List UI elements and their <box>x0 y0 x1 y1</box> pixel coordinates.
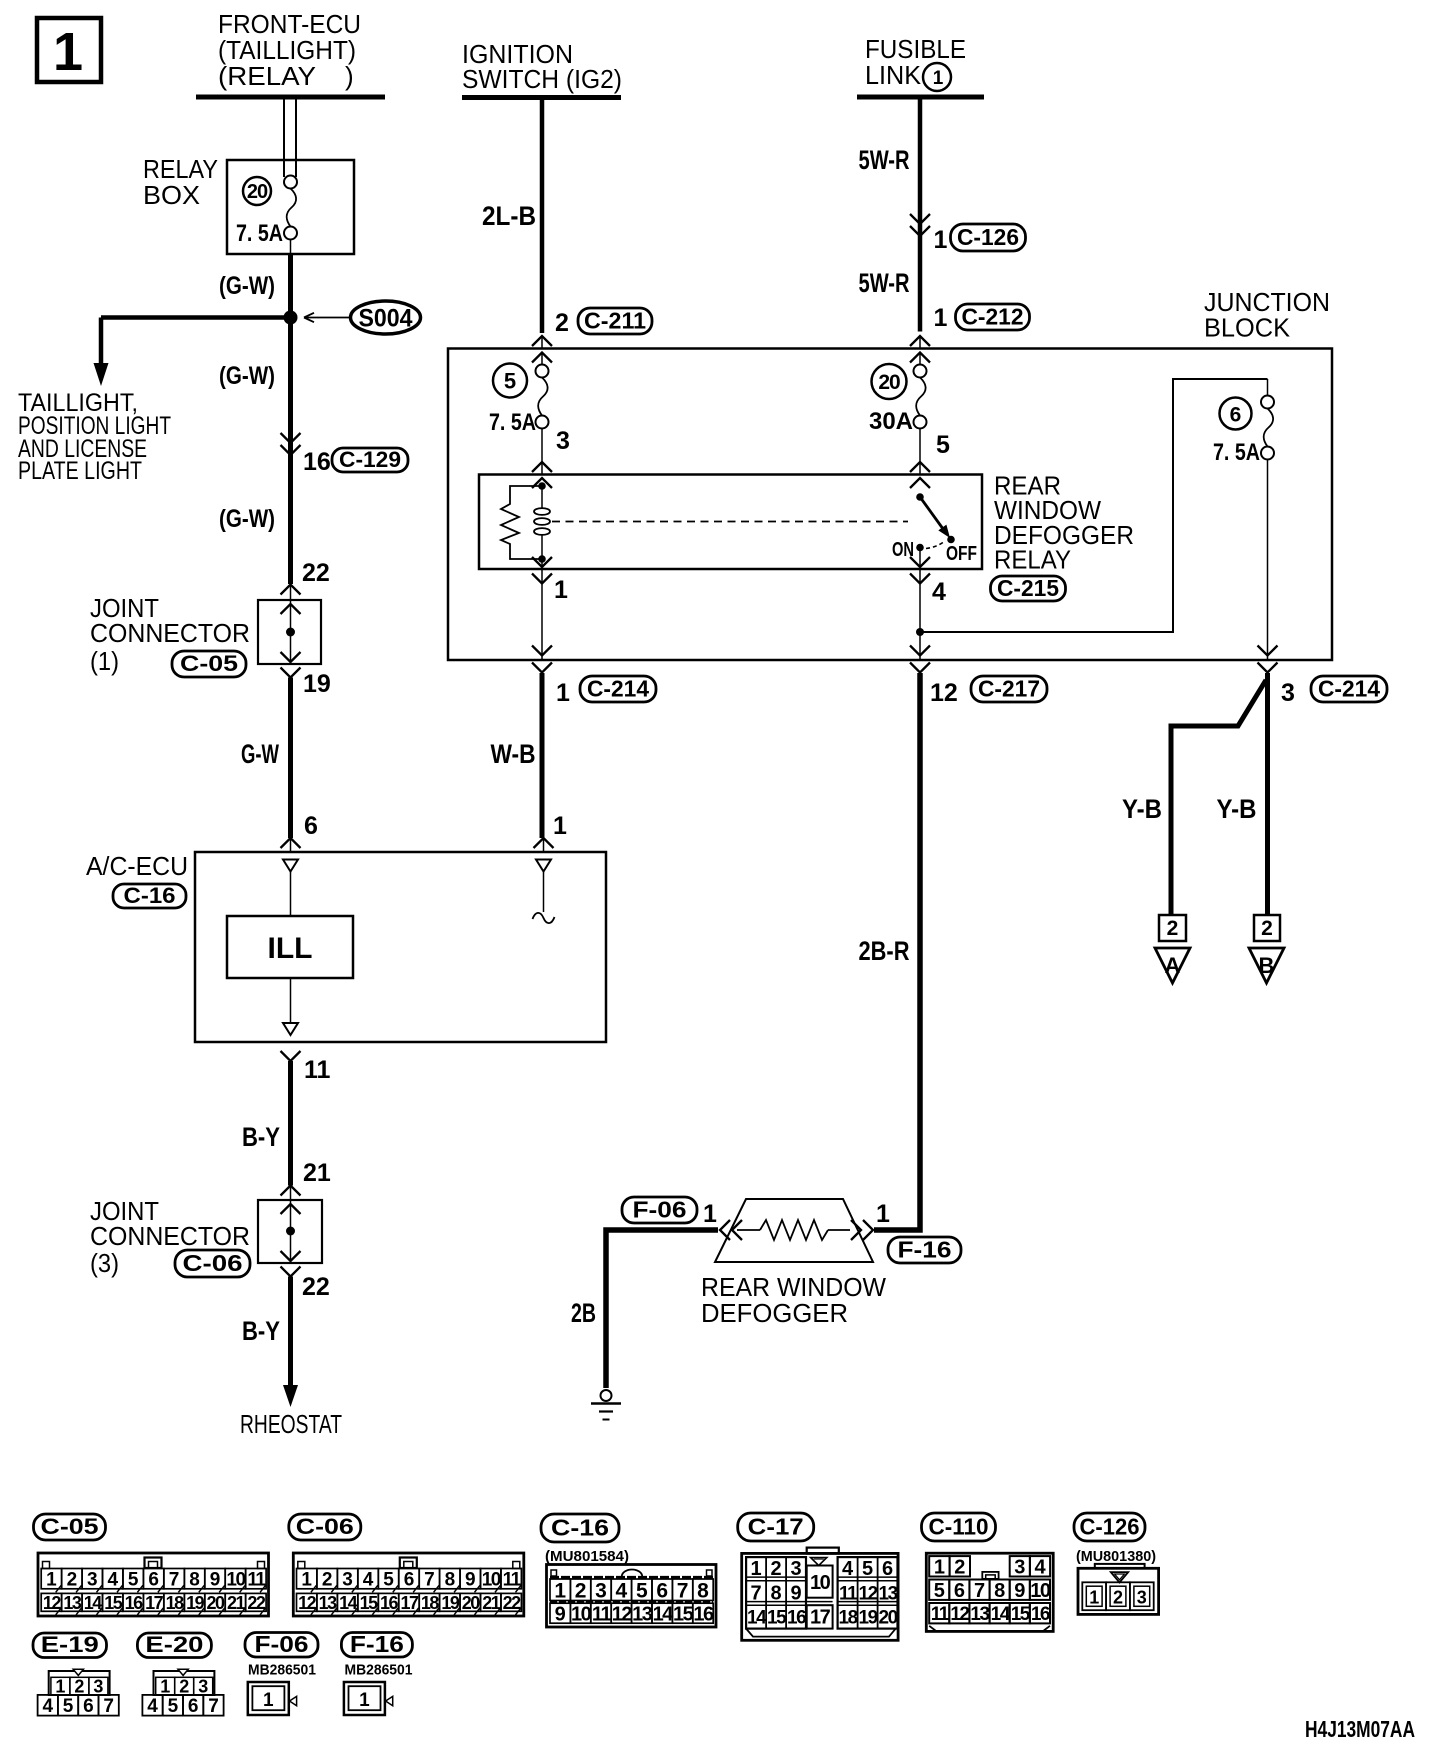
svg-text:C-214: C-214 <box>587 675 649 701</box>
svg-text:4: 4 <box>932 578 946 606</box>
terminal chevrons into junction block (C-211) <box>532 336 552 365</box>
connector label C-215 <box>991 575 1066 601</box>
connector label C-05 <box>172 651 246 677</box>
svg-text:20: 20 <box>878 371 900 394</box>
svg-text:16: 16 <box>693 1603 714 1625</box>
svg-text:1: 1 <box>1089 1588 1099 1608</box>
svg-text:Y-B: Y-B <box>1122 794 1162 824</box>
svg-text:19: 19 <box>303 670 331 698</box>
exit pin 1 C-214 <box>532 646 552 673</box>
wire B-Y A/C-ECU to joint connector C-06 <box>288 1061 293 1186</box>
svg-text:7: 7 <box>751 1583 762 1605</box>
svg-text:CONNECTOR: CONNECTOR <box>90 618 250 648</box>
svg-text:5: 5 <box>862 1558 873 1580</box>
svg-text:8: 8 <box>445 1570 456 1591</box>
relay switch contact <box>916 493 955 551</box>
svg-text:16: 16 <box>303 448 331 476</box>
svg-text:(G-W): (G-W) <box>219 505 275 533</box>
svg-text:22: 22 <box>503 1593 522 1613</box>
svg-text:13: 13 <box>879 1584 898 1605</box>
svg-text:1: 1 <box>876 1200 890 1228</box>
bus bar IGNITION SWITCH <box>462 95 621 100</box>
svg-text:13: 13 <box>970 1604 989 1625</box>
svg-text:2: 2 <box>575 1579 587 1602</box>
svg-text:1: 1 <box>301 1570 312 1591</box>
svg-text:22: 22 <box>302 559 330 587</box>
connector label C-212 <box>956 303 1030 330</box>
svg-text:RHEOSTAT: RHEOSTAT <box>240 1409 342 1439</box>
in-line connector marker 1 C-126 <box>910 214 930 236</box>
svg-text:6: 6 <box>188 1696 199 1717</box>
connector label C-126 <box>1074 1513 1145 1541</box>
svg-text:(1): (1) <box>90 646 119 676</box>
svg-text:DEFOGGER: DEFOGGER <box>701 1298 848 1328</box>
connector label C-16 <box>541 1514 619 1542</box>
svg-text:2B-R: 2B-R <box>859 936 910 966</box>
svg-text:2: 2 <box>1261 917 1273 940</box>
connector label C-05 <box>34 1514 106 1540</box>
svg-text:C-129: C-129 <box>339 447 401 472</box>
svg-text:8: 8 <box>189 1570 200 1591</box>
svg-text:6: 6 <box>954 1580 965 1602</box>
svg-text:11: 11 <box>931 1604 950 1625</box>
terminal chevron out of C-05, pin 19 <box>281 668 301 678</box>
svg-text:C-16: C-16 <box>551 1514 609 1540</box>
svg-text:OFF: OFF <box>946 543 977 565</box>
relay coil and resistor <box>501 482 550 563</box>
terminal chevron out of C-06 pin 22 <box>281 1267 301 1277</box>
fuse 6 (7.5A) <box>1267 379 1269 396</box>
rear window defogger relay box <box>479 475 982 570</box>
svg-text:H4J13M07AA: H4J13M07AA <box>1305 1716 1415 1742</box>
sheet number box 1 <box>37 18 101 82</box>
svg-text:14: 14 <box>339 1593 358 1613</box>
svg-text:6: 6 <box>404 1570 415 1591</box>
svg-text:15: 15 <box>673 1603 694 1625</box>
svg-text:4: 4 <box>363 1570 374 1591</box>
svg-text:11: 11 <box>304 1056 331 1084</box>
svg-text:C-05: C-05 <box>180 651 238 676</box>
wire fuse 6 to pin 3 exit <box>1267 460 1269 661</box>
wire 2L-B ignition switch to junction block <box>540 98 545 334</box>
connector C-16 pin chart <box>547 1565 717 1628</box>
connector C-05 pin chart <box>38 1553 269 1616</box>
svg-text:B-Y: B-Y <box>242 1122 280 1152</box>
fuse number 6 circled <box>1220 398 1252 430</box>
wire 2B defogger to ground <box>606 1230 718 1388</box>
A/C-ECU box <box>195 852 606 1042</box>
svg-text:2: 2 <box>954 1557 965 1579</box>
svg-text:F-16: F-16 <box>898 1236 952 1262</box>
wire branch to taillight <box>94 318 291 387</box>
svg-text:1: 1 <box>46 1570 57 1591</box>
svg-text:C-214: C-214 <box>1318 675 1380 701</box>
svg-text:3: 3 <box>1281 679 1295 707</box>
terminal chevrons relay pin 5 <box>910 462 930 488</box>
svg-text:ILL: ILL <box>268 932 313 965</box>
terminal chevrons into defogger right (F-16) <box>851 1220 873 1240</box>
label REAR WINDOW DEFOGGER <box>701 1272 886 1328</box>
svg-text:7: 7 <box>169 1570 180 1591</box>
svg-text:BOX: BOX <box>143 180 200 210</box>
connector C-126 pin chart <box>1078 1564 1159 1615</box>
svg-text:1: 1 <box>554 576 568 604</box>
splice S004 <box>304 301 421 334</box>
ILL block <box>227 916 353 978</box>
wire G-W joint connector to A/C-ECU <box>288 678 293 839</box>
wire 5W-R fusible link to junction block <box>918 97 923 332</box>
svg-text:16: 16 <box>1031 1604 1050 1625</box>
svg-text:17: 17 <box>810 1607 831 1629</box>
svg-text:7: 7 <box>677 1579 689 1602</box>
wire fuse to box edge <box>290 240 292 255</box>
svg-text:7: 7 <box>974 1580 985 1602</box>
svg-text:6: 6 <box>1230 404 1242 427</box>
bus bar FRONT-ECU <box>196 95 385 100</box>
svg-text:3: 3 <box>1137 1588 1147 1608</box>
svg-text:2B: 2B <box>571 1298 596 1328</box>
connector label E-19 <box>33 1632 107 1657</box>
relay box <box>227 160 354 254</box>
svg-text:22: 22 <box>302 1273 330 1301</box>
terminal chevron into C-05 <box>281 585 301 601</box>
label JUNCTION BLOCK <box>1204 287 1330 343</box>
svg-text:18: 18 <box>839 1608 858 1629</box>
connector label F-16 <box>888 1236 961 1263</box>
wire Y-B left branch to A <box>1171 680 1266 916</box>
svg-text:20: 20 <box>206 1593 225 1613</box>
wire Y-B right branch to B <box>1265 673 1270 916</box>
svg-text:2: 2 <box>771 1558 782 1580</box>
wire 2B-R to rear window defogger <box>874 673 920 1230</box>
svg-text:C-05: C-05 <box>41 1514 99 1539</box>
terminal chevron into C-06 <box>281 1186 301 1201</box>
svg-text:10: 10 <box>1030 1580 1051 1602</box>
connector label C-06 <box>175 1250 250 1277</box>
label REAR WINDOW DEFOGGER RELAY <box>994 471 1134 575</box>
svg-text:12: 12 <box>930 679 958 707</box>
svg-text:3: 3 <box>93 1677 103 1697</box>
label JOINT CONNECTOR (1) <box>90 593 250 676</box>
svg-text:4: 4 <box>43 1696 54 1717</box>
svg-text:30A: 30A <box>869 408 913 435</box>
svg-text:5: 5 <box>936 431 950 459</box>
svg-text:7: 7 <box>208 1696 219 1717</box>
label IGNITION SWITCH (IG2) <box>462 39 622 94</box>
svg-text:3: 3 <box>87 1570 98 1591</box>
node S004 junction dot <box>284 311 298 325</box>
svg-text:C-212: C-212 <box>962 303 1024 329</box>
svg-text:5: 5 <box>128 1570 139 1591</box>
svg-text:1: 1 <box>934 304 948 332</box>
svg-text:1: 1 <box>934 226 948 254</box>
wire (G-W) S004 to joint connector C-05 <box>288 318 293 585</box>
svg-text:7. 5A: 7. 5A <box>1213 439 1260 466</box>
svg-text:2L-B: 2L-B <box>482 201 536 231</box>
connector label C-06 <box>289 1514 361 1540</box>
svg-text:20: 20 <box>247 181 268 203</box>
svg-text:C-126: C-126 <box>957 224 1019 250</box>
svg-text:10: 10 <box>571 1603 592 1625</box>
svg-text:6: 6 <box>656 1579 668 1602</box>
connector C-17 pin chart <box>742 1548 898 1641</box>
svg-text:12: 12 <box>612 1603 633 1625</box>
svg-text:(MU801584): (MU801584) <box>545 1548 629 1565</box>
svg-text:7. 5A: 7. 5A <box>236 220 283 247</box>
terminal chevrons relay pin 3 <box>532 462 552 488</box>
A/C-ECU pin 6 triangle <box>283 860 298 917</box>
fuse 7.5A in relay box <box>284 176 297 240</box>
wire pin 4 to fuse 6 <box>920 379 1268 632</box>
relay actuation dashed line <box>552 521 908 523</box>
svg-text:9: 9 <box>791 1583 802 1605</box>
svg-text:S004: S004 <box>359 305 413 333</box>
svg-text:5: 5 <box>934 1580 945 1602</box>
svg-text:2: 2 <box>74 1677 84 1697</box>
svg-text:3: 3 <box>1014 1557 1025 1579</box>
svg-text:1: 1 <box>553 812 567 840</box>
svg-text:5: 5 <box>383 1570 394 1591</box>
A/C-ECU pin 1 triangle and coil <box>533 860 555 924</box>
svg-text:7. 5A: 7. 5A <box>489 409 536 436</box>
in-line connector marker 16 C-129 <box>281 433 301 455</box>
svg-text:C-110: C-110 <box>929 1513 989 1539</box>
svg-text:13: 13 <box>632 1603 653 1625</box>
svg-text:7: 7 <box>103 1696 114 1717</box>
svg-text:3: 3 <box>595 1579 607 1602</box>
wire relay pin 1 <box>532 557 552 660</box>
svg-text:W-B: W-B <box>491 739 536 769</box>
svg-text:9: 9 <box>1014 1580 1025 1602</box>
rear window defogger element <box>715 1199 873 1262</box>
svg-text:2: 2 <box>1113 1588 1123 1608</box>
connector label C-214 <box>1311 675 1387 702</box>
svg-text:F-16: F-16 <box>350 1631 404 1657</box>
svg-text:1: 1 <box>263 1690 274 1711</box>
svg-text:6: 6 <box>304 812 318 840</box>
terminal chevrons into junction block (C-212) <box>910 336 930 365</box>
svg-text:C-126: C-126 <box>1080 1513 1140 1539</box>
ground <box>591 1390 621 1420</box>
svg-text:1: 1 <box>933 68 944 89</box>
svg-text:14: 14 <box>653 1603 675 1625</box>
svg-text:1: 1 <box>160 1677 170 1697</box>
svg-text:8: 8 <box>697 1579 709 1602</box>
svg-text:6: 6 <box>83 1696 94 1717</box>
connector E-20 pin chart <box>142 1669 223 1717</box>
svg-text:5: 5 <box>504 369 516 394</box>
svg-text:18: 18 <box>166 1593 185 1613</box>
svg-text:1: 1 <box>554 1579 566 1602</box>
connector label C-211 <box>578 307 652 334</box>
svg-text:19: 19 <box>859 1608 878 1629</box>
svg-text:11: 11 <box>839 1584 858 1605</box>
svg-text:4: 4 <box>616 1579 628 1602</box>
connector label F-06 <box>622 1196 697 1223</box>
exit pin 3 C-214 <box>1258 646 1278 673</box>
svg-text:4: 4 <box>108 1570 119 1591</box>
svg-text:G-W: G-W <box>241 739 279 769</box>
svg-text:1: 1 <box>53 22 83 82</box>
svg-text:2: 2 <box>555 309 569 337</box>
svg-text:8: 8 <box>994 1580 1005 1602</box>
terminal chevron into A/C-ECU pin 6 <box>281 838 301 852</box>
exit pin 12 C-217 <box>910 646 930 673</box>
svg-text:2: 2 <box>67 1570 78 1591</box>
svg-text:C-17: C-17 <box>748 1513 804 1539</box>
svg-text:E-20: E-20 <box>145 1632 203 1657</box>
connector label C-110 <box>922 1513 996 1541</box>
svg-text:2: 2 <box>179 1677 189 1697</box>
svg-text:3: 3 <box>791 1558 802 1580</box>
connector label C-129 <box>332 447 408 472</box>
connector label C-16 <box>113 883 186 908</box>
svg-text:6: 6 <box>882 1558 893 1580</box>
joint connector C-05 box <box>258 600 321 664</box>
svg-text:F-06: F-06 <box>633 1196 687 1222</box>
svg-text:12: 12 <box>950 1604 969 1625</box>
svg-text:C-06: C-06 <box>296 1514 354 1539</box>
terminal chevron out of A/C-ECU pin 11 <box>281 1051 301 1061</box>
fuse number 20 circled <box>243 177 271 205</box>
svg-text:C-217: C-217 <box>978 675 1040 701</box>
svg-text:9: 9 <box>210 1570 221 1591</box>
svg-text:8: 8 <box>771 1583 782 1605</box>
svg-text:1: 1 <box>55 1677 65 1697</box>
page reference 2-A <box>1155 915 1190 983</box>
connector E-19 pin chart <box>38 1669 119 1717</box>
svg-text:7: 7 <box>424 1570 435 1591</box>
svg-text:Y-B: Y-B <box>1217 794 1257 824</box>
svg-text:(MU801380): (MU801380) <box>1076 1548 1156 1565</box>
label FUSIBLE LINK 1 <box>865 34 966 91</box>
svg-text:C-16: C-16 <box>124 883 176 908</box>
terminal chevron into A/C-ECU pin 1 <box>534 838 554 852</box>
svg-text:1: 1 <box>703 1200 717 1228</box>
wire double line from FRONT-ECU to relay box fuse <box>284 97 296 177</box>
svg-text:2: 2 <box>1167 917 1179 940</box>
connector label C-126 <box>951 224 1026 251</box>
svg-text:(G-W): (G-W) <box>219 272 275 300</box>
svg-text:10: 10 <box>810 1572 831 1594</box>
svg-text:5W-R: 5W-R <box>859 268 910 298</box>
svg-text:9: 9 <box>555 1603 566 1625</box>
node relay pin 4 branch <box>916 628 924 636</box>
svg-text:12: 12 <box>859 1584 878 1605</box>
label TAILLIGHT POSITION LIGHT AND LICENSE PLATE LIGHT <box>18 389 171 485</box>
svg-text:3: 3 <box>342 1570 353 1591</box>
svg-text:12: 12 <box>43 1593 62 1613</box>
svg-text:C-06: C-06 <box>183 1250 243 1276</box>
wire fuse 20 to relay pin 5 <box>919 429 921 475</box>
fuse 20 (30A) <box>914 365 927 429</box>
svg-text:5: 5 <box>168 1696 179 1717</box>
label RELAY BOX <box>143 154 218 210</box>
wire (G-W) relay box to node S004 <box>288 254 293 318</box>
svg-text:5: 5 <box>63 1696 74 1717</box>
svg-text:11: 11 <box>592 1603 612 1625</box>
svg-text:14: 14 <box>991 1604 1011 1625</box>
wire B-Y to rheostat <box>283 1277 298 1408</box>
page reference 2-B <box>1249 915 1284 983</box>
junction block box <box>448 349 1332 661</box>
svg-text:6: 6 <box>148 1570 159 1591</box>
svg-text:C-211: C-211 <box>584 307 646 333</box>
svg-text:3: 3 <box>556 427 570 455</box>
svg-text:SWITCH (IG2): SWITCH (IG2) <box>462 64 622 94</box>
svg-text:C-215: C-215 <box>997 575 1059 601</box>
connector C-06 pin chart <box>293 1553 524 1616</box>
svg-text:F-06: F-06 <box>255 1631 309 1657</box>
svg-text:5W-R: 5W-R <box>859 145 910 175</box>
terminal chevrons into defogger left (F-06) <box>720 1220 742 1240</box>
svg-text:): ) <box>345 61 354 91</box>
svg-text:4: 4 <box>147 1696 158 1717</box>
connector label C-217 <box>971 675 1047 702</box>
connector label F-16 <box>341 1631 412 1657</box>
wire W-B to A/C-ECU <box>540 673 545 838</box>
svg-text:1: 1 <box>556 679 570 707</box>
svg-text:1: 1 <box>934 1557 945 1579</box>
svg-text:LINK: LINK <box>865 60 922 90</box>
svg-text:BLOCK: BLOCK <box>1204 313 1291 343</box>
label FRONT-ECU (TAILLIGHT RELAY) <box>218 9 361 91</box>
svg-text:MB286501: MB286501 <box>248 1662 316 1679</box>
svg-text:15: 15 <box>767 1608 787 1629</box>
svg-text:16: 16 <box>787 1608 806 1629</box>
connector label F-06 <box>245 1631 318 1657</box>
fuse 5 (7.5A) <box>536 365 549 429</box>
svg-text:B: B <box>1259 953 1275 978</box>
svg-text:1: 1 <box>359 1690 370 1711</box>
connector F-16 pin chart <box>344 1682 393 1715</box>
svg-text:(3): (3) <box>90 1248 119 1278</box>
svg-text:RELAY: RELAY <box>994 545 1071 575</box>
svg-text:(RELAY: (RELAY <box>218 61 316 91</box>
svg-text:PLATE LIGHT: PLATE LIGHT <box>18 457 142 485</box>
svg-text:4: 4 <box>842 1558 854 1580</box>
svg-text:MB286501: MB286501 <box>345 1662 413 1679</box>
svg-text:20: 20 <box>879 1608 898 1629</box>
connector label C-214 <box>580 675 656 702</box>
svg-text:CONNECTOR: CONNECTOR <box>90 1221 250 1251</box>
svg-text:9: 9 <box>465 1570 476 1591</box>
wire fuse 5 to relay pin 3 <box>541 429 543 475</box>
connector label E-20 <box>137 1632 211 1657</box>
fuse number 20 circled <box>872 364 907 399</box>
svg-text:B-Y: B-Y <box>242 1316 280 1346</box>
connector F-06 pin chart <box>248 1682 297 1715</box>
joint connector C-06 box <box>258 1200 322 1263</box>
svg-text:E-19: E-19 <box>41 1632 99 1657</box>
wire relay pin 4 <box>910 548 930 661</box>
connector C-110 pin chart <box>926 1553 1053 1631</box>
svg-text:A: A <box>1165 953 1181 978</box>
svg-text:1: 1 <box>751 1558 762 1580</box>
bus bar FUSIBLE LINK <box>857 95 984 100</box>
svg-text:4: 4 <box>1034 1557 1046 1579</box>
svg-text:21: 21 <box>303 1159 331 1187</box>
wire ILL to pin 11 <box>283 978 298 1035</box>
svg-text:(G-W): (G-W) <box>219 362 275 390</box>
svg-text:14: 14 <box>747 1608 767 1629</box>
fuse number 5 circled <box>493 364 527 398</box>
svg-text:2: 2 <box>322 1570 333 1591</box>
label JOINT CONNECTOR (3) <box>90 1196 250 1278</box>
svg-text:3: 3 <box>198 1677 208 1697</box>
svg-text:15: 15 <box>1011 1604 1031 1625</box>
svg-text:5: 5 <box>636 1579 648 1602</box>
